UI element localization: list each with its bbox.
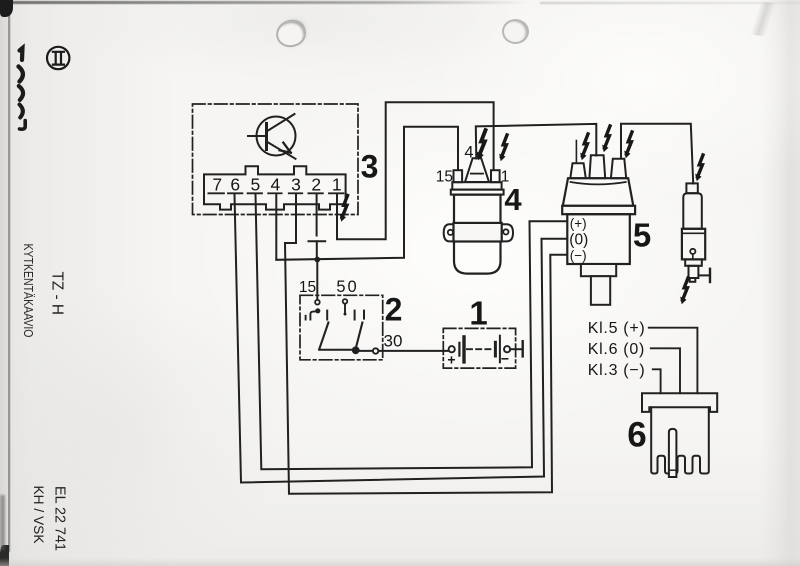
svg-text:Kl.5 (+): Kl.5 (+) [588, 320, 646, 337]
wire terminal 30 to battery [379, 350, 449, 352]
ignition coil T4 HT tower [465, 158, 489, 182]
spark plug thread [689, 266, 699, 278]
punch hole left [274, 17, 309, 50]
wire pin2 lower to node A [316, 241, 318, 256]
pin contact underline 4 [268, 192, 281, 194]
svg-text:KH / VSK: KH / VSK [31, 486, 46, 544]
spark plug terminal nut [686, 183, 697, 193]
switch contact 50 stem end dot [344, 313, 347, 316]
BOSCH logo fragment letter C [20, 105, 23, 118]
wire node A down to switch terminal 15 [316, 259, 318, 299]
connector X6 flange [642, 393, 717, 412]
svg-text:4: 4 [504, 182, 522, 217]
wire Kl.6 to connector pin [651, 348, 680, 393]
transistor Q1 circle [257, 117, 296, 156]
distributor flange [562, 206, 635, 214]
BOSCH logo fragment letter H [20, 121, 26, 130]
transistor Q1 base lead [248, 135, 267, 137]
switch contact tick a [326, 311, 328, 320]
switch terminal 30 circle [373, 348, 378, 353]
svg-text:KYTKENTÄKAAVIO: KYTKENTÄKAAVIO [21, 244, 36, 338]
switch contact tick c [363, 311, 365, 319]
trademark circle symbol [47, 47, 69, 69]
battery plus terminal circle [449, 346, 455, 352]
pin contact underline 3 [289, 192, 302, 194]
svg-text:4: 4 [271, 175, 281, 195]
distributor body [567, 214, 630, 264]
coil body [454, 195, 501, 274]
coil bracket left ear hole [448, 230, 453, 235]
coil terminal 15 lug [454, 170, 463, 182]
battery G1 dash-dot box [443, 328, 515, 368]
spark symbol above spark plug [695, 155, 703, 181]
wire battery minus out [510, 348, 522, 350]
distributor left tower [570, 163, 586, 178]
wire pin2 upper stub [316, 195, 318, 236]
spark symbol right tower [624, 132, 632, 158]
switch terminal 15 contact dot [315, 308, 320, 313]
coil bracket left ear [444, 224, 454, 241]
svg-text:−: − [501, 351, 509, 367]
spark symbol at spark plug gap [680, 278, 688, 304]
distributor cap inner curve [571, 182, 626, 184]
coil cap lower band [451, 190, 504, 195]
battery cells dashed link [467, 348, 494, 350]
svg-text:2: 2 [311, 175, 321, 195]
wire distributor right tower to spark plug (HT lead) [621, 124, 693, 184]
svg-text:3: 3 [361, 149, 379, 185]
spark symbol at pin1 of U3 [340, 196, 348, 222]
battery left cell long plate [462, 337, 465, 362]
coil bracket right ear [502, 224, 513, 241]
svg-text:+: + [447, 352, 455, 368]
wire pin3 to distributor (-) [285, 195, 567, 494]
distributor cap [563, 178, 634, 206]
spark plug vent stem [692, 254, 694, 259]
paper tone: top mid tint [90, 0, 510, 90]
svg-text:TZ - H: TZ - H [49, 272, 66, 316]
svg-text:1: 1 [469, 295, 487, 332]
wire pivot to terminal 30 [356, 350, 373, 352]
spark plug ground electrode arm [699, 274, 710, 276]
switch bottom link [319, 349, 355, 351]
svg-text:15: 15 [299, 279, 316, 296]
bottom edge shading [0, 558, 800, 566]
svg-text:6: 6 [230, 175, 240, 195]
svg-text:1: 1 [332, 175, 342, 195]
connector strip of U3 housing [204, 166, 346, 209]
crease top-right [726, 0, 800, 41]
switch contact tick b [354, 311, 356, 320]
spark plug shell shoulder line [682, 232, 705, 234]
battery minus terminal circle [504, 346, 510, 352]
spark plug shell [682, 229, 705, 260]
wire Kl.3 to connector pin [653, 369, 661, 393]
coil tower inner line [471, 173, 483, 175]
transistor Q1 emitter [267, 142, 296, 159]
paper tone: left column tint [8, 0, 178, 566]
spark symbol centre tower [602, 126, 610, 152]
stub wire on left tower [575, 141, 577, 164]
black scan corner blobs [0, 0, 13, 17]
wire Kl.5 to connector pin [649, 328, 698, 394]
svg-text:5: 5 [633, 217, 651, 254]
spark symbol left tower [580, 134, 588, 160]
svg-text:15: 15 [436, 168, 453, 185]
wire pin1 to coil terminal 1 [337, 102, 494, 239]
svg-text:(0): (0) [569, 231, 588, 248]
svg-text:4: 4 [464, 144, 473, 162]
coil cap upper band [452, 182, 501, 189]
BOSCH logo fragment letter S [19, 86, 23, 100]
svg-text:3: 3 [291, 175, 301, 195]
svg-text:EL 22 741: EL 22 741 [52, 486, 68, 551]
BOSCH logo fragment letter B (cut off at page edge) [20, 48, 23, 60]
pin contact underline 1 [329, 192, 343, 194]
pin contact underline 5 [248, 192, 262, 194]
switch pivot dot [352, 346, 360, 354]
switch terminal 50 circle [343, 299, 348, 304]
spark plug seat gasket [685, 259, 702, 265]
svg-text:(+): (+) [570, 216, 587, 231]
punch hole right [502, 19, 529, 44]
transistor Q1 emitter arrow [280, 143, 291, 153]
BOSCH logo fragment letter O [19, 67, 23, 82]
paper top edge shadow [0, 1, 530, 4]
paper tone: bottom tint [0, 430, 800, 566]
pin contact underline 6 [228, 192, 242, 194]
trademark II glyph [52, 52, 65, 65]
connector X6 body with prongs [651, 407, 709, 473]
svg-text:(−): (−) [570, 248, 587, 263]
spark plug ground electrode bar [709, 269, 711, 282]
svg-text:50: 50 [336, 278, 358, 296]
svg-text:5: 5 [251, 175, 261, 195]
paper left edge dark line [8, 0, 10, 552]
ignition switch S2 dash-dot box [300, 295, 383, 360]
battery right cell long plate [499, 336, 501, 363]
switch contact 15 fork [310, 311, 317, 319]
transistor Q1 base bar [265, 124, 268, 150]
wire pin6 to distributor (0) [235, 195, 567, 483]
coil bracket right ear hole [503, 229, 508, 234]
svg-text:7: 7 [212, 175, 222, 195]
spark plug insulator [683, 193, 702, 229]
battery right cell short plate [494, 342, 497, 356]
distributor shaft [591, 276, 610, 305]
spark plug centre electrode [690, 278, 696, 282]
wire node A to coil terminal 15 [276, 127, 458, 260]
coil bracket band [454, 223, 502, 242]
svg-text:Kl.3 (−): Kl.3 (−) [588, 362, 646, 379]
connector bar on pin2 wire [309, 240, 326, 242]
control unit U3 dash-dot box [193, 104, 359, 215]
switch arm right [356, 323, 363, 349]
svg-text:2: 2 [385, 292, 403, 328]
node A junction dot [314, 257, 320, 263]
wire pin4 down to node A [275, 195, 277, 260]
pin contact underline 7 [208, 192, 224, 194]
spark plug vent circle [690, 249, 695, 254]
distributor right tower [611, 159, 626, 179]
wire pin5 to distributor (+) [256, 195, 567, 470]
svg-text:Kl.6 (0): Kl.6 (0) [588, 341, 645, 358]
distributor neck [581, 264, 616, 276]
battery output end bar [522, 341, 524, 356]
switch contact 15 left tick [305, 316, 307, 320]
wire coil terminal 4 to distributor centre tower (HT lead) [476, 124, 597, 159]
spark symbol at coil terminal 1 [499, 135, 507, 161]
distributor centre tower [589, 155, 605, 178]
coil terminal 1 lug [491, 170, 500, 182]
switch arm left [319, 323, 328, 350]
battery left cell short plate [458, 343, 460, 356]
spark symbol at coil terminal 4 [477, 130, 486, 160]
connector X6 centre pin tick [670, 469, 675, 471]
connector X6 centre pin [669, 429, 677, 477]
switch contact 50 stem [344, 304, 346, 314]
svg-text:6: 6 [627, 416, 646, 455]
transistor Q1 collector [267, 114, 295, 132]
switch terminal 15 circle [315, 300, 320, 305]
pin contact underline 2 [308, 192, 322, 194]
svg-text:30: 30 [384, 332, 403, 351]
